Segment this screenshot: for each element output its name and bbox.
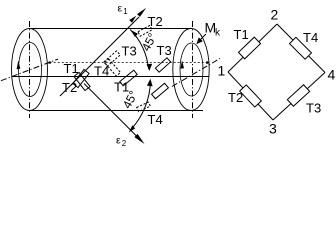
svg-text:1: 1	[123, 7, 128, 16]
strain gauge unlabeled wrapped (solid)	[152, 83, 169, 99]
svg-text:T3: T3	[306, 101, 321, 116]
svg-text:4: 4	[328, 67, 336, 83]
left end inclined centerline	[1, 59, 58, 81]
torque leader line Mk	[199, 34, 207, 42]
arrowhead upper arc start	[130, 30, 138, 37]
svg-text:T3: T3	[122, 44, 137, 59]
strain gauge T4 back (dashed)	[104, 51, 120, 66]
strain gauge T2 top (dashed)	[138, 25, 152, 36]
bridge side 1-3	[228, 72, 273, 120]
arrowhead lower arc end	[129, 125, 135, 132]
right end outer ellipse	[173, 29, 209, 111]
svg-text:T4: T4	[148, 112, 163, 127]
arrowhead e1 tip	[137, 8, 146, 17]
svg-text:T1: T1	[234, 27, 249, 42]
svg-text:ε: ε	[118, 3, 123, 15]
left end vertical centerline	[29, 21, 31, 118]
resistor T4 bridge	[290, 37, 312, 59]
strain gauge T1 wrapped (solid)	[120, 70, 137, 86]
45 degree arc upper	[130, 30, 148, 70]
svg-text:T4: T4	[94, 64, 109, 79]
node junction dot left of dashed line	[48, 61, 51, 64]
arrowhead upper arc end	[147, 64, 153, 71]
svg-text:2: 2	[271, 7, 279, 23]
left end inner ellipse	[19, 43, 42, 97]
svg-text:1: 1	[218, 63, 226, 79]
svg-text:3: 3	[269, 121, 277, 137]
arrowhead Mk leader tip	[196, 37, 203, 44]
strain gauge T2 front (solid)	[74, 72, 90, 90]
strain gauge T4 bottom (dashed)	[137, 102, 151, 112]
rotation arrow right end	[180, 60, 184, 68]
wire shaft bottom contour	[31, 110, 204, 112]
rotation arrow left end	[17, 61, 21, 70]
svg-text:T2: T2	[228, 90, 243, 105]
svg-text:T2: T2	[62, 80, 77, 95]
node junction dot right of dashed line	[206, 61, 209, 64]
right end inner ellipse	[180, 43, 203, 96]
arrowhead small on e1 line	[129, 16, 136, 23]
bridge side 3-4	[273, 73, 325, 121]
wire front generator line	[11, 76, 209, 78]
strain gauge T1 front (solid)	[73, 69, 89, 87]
wire strain direction line e2	[84, 84, 139, 139]
svg-text:T2: T2	[148, 14, 163, 29]
45 degree arc lower	[131, 81, 151, 130]
svg-text:2: 2	[122, 139, 127, 148]
wire shaft top contour	[31, 28, 191, 30]
resistor T3 bridge	[287, 85, 309, 106]
bridge side 2-4	[277, 24, 325, 73]
right end inclined centerline	[172, 59, 220, 87]
wire back generator line (hidden, dashed)	[50, 62, 208, 64]
resistor T1 bridge	[238, 37, 260, 59]
svg-text:T1: T1	[64, 61, 79, 76]
svg-text:T3: T3	[157, 43, 172, 58]
resistor T2 bridge	[240, 85, 262, 107]
right end vertical centerline	[192, 21, 194, 118]
arrowhead lower arc start	[147, 79, 153, 87]
arrowhead e2 tip	[134, 134, 144, 144]
svg-text:ε: ε	[116, 135, 121, 147]
strain gauge T3 back (dashed)	[105, 59, 121, 76]
bridge side 1-2	[228, 24, 277, 72]
wire strain direction line e1	[60, 17, 139, 96]
left end outer ellipse	[12, 29, 48, 111]
svg-text:T4: T4	[303, 30, 318, 45]
strain gauge T3 wrapped (solid)	[155, 58, 170, 72]
